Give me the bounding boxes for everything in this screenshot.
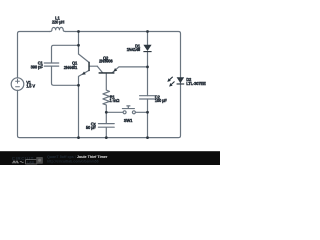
svg-text:1 mΩ: 1 mΩ	[110, 98, 121, 103]
svg-text:QuanT 5off cps / Joule Thief T: QuanT 5off cps / Joule Thief Timer	[47, 155, 108, 159]
svg-text:390 pF: 390 pF	[31, 64, 44, 69]
svg-text:1N4148: 1N4148	[127, 47, 141, 52]
svg-text:1.5 V: 1.5 V	[26, 84, 35, 89]
svg-text:2N3906: 2N3906	[99, 59, 113, 64]
svg-text:2N4401: 2N4401	[64, 65, 78, 70]
svg-text:LAB: LAB	[27, 160, 35, 164]
svg-text:100 µF: 100 µF	[155, 98, 168, 103]
svg-text:SW1: SW1	[124, 118, 133, 123]
svg-text:50 µF: 50 µF	[86, 125, 96, 130]
svg-text:220 µH: 220 µH	[52, 19, 65, 24]
svg-text:http://circuitlab.com/c/bsmm56: http://circuitlab.com/c/bsmm56	[47, 160, 99, 164]
svg-text:LTL-307EE: LTL-307EE	[186, 81, 206, 86]
